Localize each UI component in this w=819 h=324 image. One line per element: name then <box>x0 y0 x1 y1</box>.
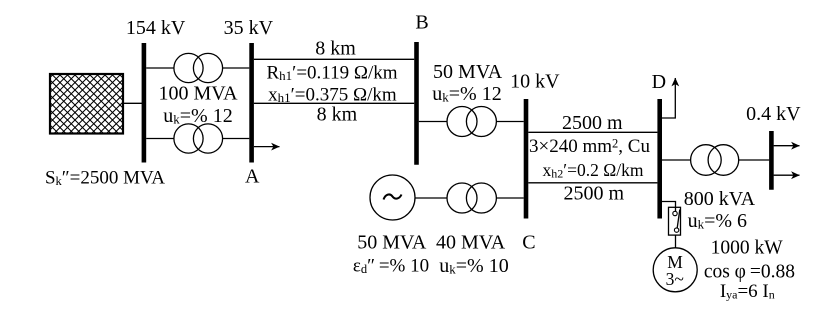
wire: bus D stub to switch <box>662 202 676 212</box>
svg-text:100 MVA: 100 MVA <box>158 83 238 105</box>
generator G (50 MVA) <box>370 175 415 220</box>
transformer 40 MVA (generator step-up) <box>447 183 477 213</box>
cable C-D circuit 2 (2500 m) <box>528 182 657 184</box>
svg-text:uk=% 12: uk=% 12 <box>432 83 501 105</box>
load arrow 2 at 0.4 kV bus <box>774 174 800 176</box>
svg-text:1000 kW: 1000 kW <box>711 237 784 258</box>
svg-text:8 km: 8 km <box>315 38 356 60</box>
svg-text:uk=% 6: uk=% 6 <box>688 210 747 232</box>
wire: 154 kV bus to transformer T2 <box>146 138 174 140</box>
overhead line A-B circuit 1 <box>254 58 414 60</box>
wire: 50 MVA transformer to bus C <box>496 121 523 123</box>
svg-text:8 km: 8 km <box>317 103 358 125</box>
svg-text:Rh1′=0.119 Ω/km: Rh1′=0.119 Ω/km <box>266 63 397 84</box>
svg-text:10 kV: 10 kV <box>510 71 560 93</box>
switch blade <box>677 210 680 229</box>
svg-text:Sk″=2500 MVA: Sk″=2500 MVA <box>45 167 165 188</box>
svg-text:Iya=6 In: Iya=6 In <box>720 281 775 302</box>
busbar C (10 kV) <box>524 99 529 219</box>
wire: bus B to 50 MVA transformer <box>419 121 447 123</box>
wire: source to 154 kV busbar <box>123 102 142 104</box>
svg-text:cos φ =0.88: cos φ =0.88 <box>704 261 795 282</box>
wire: generator to 40 MVA transformer <box>415 197 447 199</box>
svg-text:xh2′=0.2 Ω/km: xh2′=0.2 Ω/km <box>543 160 644 181</box>
wire: transformer T1 to bus A <box>223 67 250 69</box>
load arrow at bus A <box>254 146 280 148</box>
motor M 3~ <box>653 248 697 292</box>
svg-text:A: A <box>245 166 260 188</box>
svg-text:3~: 3~ <box>666 269 684 289</box>
wire: 40 MVA transformer to bus C <box>496 197 523 199</box>
wire: 154 kV bus to transformer T1 <box>146 67 174 69</box>
svg-text:uk=% 10: uk=% 10 <box>439 255 508 277</box>
busbar B <box>414 42 419 165</box>
svg-text:0.4 kV: 0.4 kV <box>746 103 801 125</box>
feeder arrow up at bus D <box>662 82 675 118</box>
transformer T2 (bottom, parallel) <box>174 124 203 153</box>
svg-text:2500 m: 2500 m <box>564 183 625 205</box>
svg-text:154 kV: 154 kV <box>126 17 186 39</box>
wire: 800 kVA transformer to 0.4 kV bus <box>739 159 770 161</box>
svg-text:C: C <box>522 232 535 254</box>
overhead line A-B circuit 2 <box>254 102 414 104</box>
svg-text:3×240 mm2, Cu: 3×240 mm2, Cu <box>529 136 650 157</box>
svg-text:2500 m: 2500 m <box>562 112 623 134</box>
transformer 800 kVA <box>691 145 722 176</box>
external grid source S (hatched box) <box>50 74 123 134</box>
switch-fuse box to motor <box>669 207 681 235</box>
busbar A (35 kV) <box>249 43 254 163</box>
transformer T1 (top, 100 MVA) <box>174 53 203 82</box>
svg-text:40 MVA: 40 MVA <box>436 232 506 254</box>
svg-text:D: D <box>652 71 666 93</box>
svg-text:35 kV: 35 kV <box>224 17 274 39</box>
wire: bus D to 800 kVA transformer <box>662 159 691 161</box>
busbar 154 kV <box>142 43 147 163</box>
svg-text:50 MVA: 50 MVA <box>357 232 427 254</box>
load arrow 1 at 0.4 kV bus <box>774 145 800 147</box>
busbar 0.4 kV <box>769 131 774 190</box>
wire: transformer T2 to bus A <box>223 138 250 140</box>
busbar D <box>657 99 662 219</box>
switch bottom contact <box>674 228 678 232</box>
generator tilde symbol <box>384 194 402 199</box>
transformer 50 MVA (B-C) <box>447 107 477 137</box>
wire: switch to motor <box>675 235 677 248</box>
switch top contact <box>673 211 677 215</box>
svg-text:uk=% 12: uk=% 12 <box>163 105 232 127</box>
svg-text:800 kVA: 800 kVA <box>684 188 756 210</box>
svg-text:B: B <box>415 12 428 34</box>
cable C-D circuit 1 (2500 m) <box>528 131 657 133</box>
svg-text:εd″ =% 10: εd″ =% 10 <box>353 256 429 277</box>
svg-text:50 MVA: 50 MVA <box>433 61 503 83</box>
